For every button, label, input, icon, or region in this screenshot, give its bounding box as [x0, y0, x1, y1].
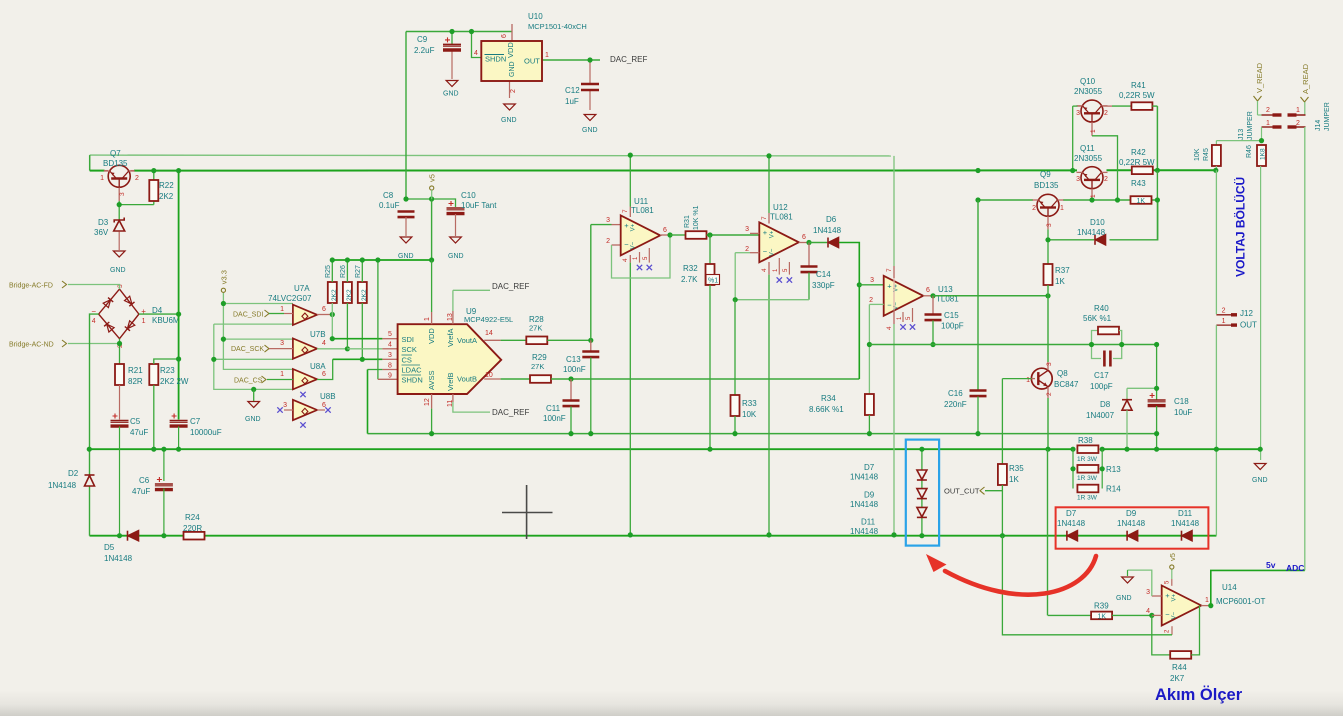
- capacitor C7 symbol: [170, 421, 188, 427]
- capacitor C16 plates: [970, 391, 987, 397]
- pin 8 LDAC: [382, 369, 397, 371]
- resistor R41: [1131, 102, 1152, 110]
- junction: [176, 168, 181, 173]
- pin 1 U13: [902, 312, 904, 322]
- junction: [867, 431, 872, 436]
- svg-text:J14: J14: [1315, 120, 1322, 131]
- junction: [587, 57, 592, 62]
- wire C8 feed vertical: [405, 32, 407, 200]
- svg-text:Q8: Q8: [1057, 369, 1068, 378]
- svg-text:AVSS: AVSS: [427, 371, 436, 390]
- diode D8 symbol: [1122, 400, 1132, 411]
- svg-text:GND: GND: [509, 61, 516, 77]
- svg-text:U14: U14: [1222, 583, 1237, 592]
- svg-text:V+: V+: [894, 284, 900, 292]
- no-connect U8B bottom: [300, 422, 305, 427]
- transistor Q11 symbol: [1081, 167, 1103, 189]
- svg-text:1K8: 1K8: [1260, 148, 1267, 160]
- svg-text:D10: D10: [1090, 218, 1105, 227]
- wire DAC_REF B: [453, 402, 490, 412]
- wire Q10 emitter leg: [1092, 136, 1118, 200]
- svg-text:GND: GND: [1252, 477, 1268, 484]
- resistor R43 body: [1131, 196, 1152, 204]
- svg-text:1: 1: [100, 175, 104, 182]
- svg-text:1: 1: [1296, 107, 1300, 114]
- svg-text:1: 1: [280, 306, 284, 313]
- wire LDAC down: [367, 370, 369, 434]
- svg-text:MCP1501-40xCH: MCP1501-40xCH: [528, 22, 587, 31]
- resistor R28: [526, 337, 547, 345]
- svg-text:C10: C10: [461, 191, 476, 200]
- svg-text:D11: D11: [1178, 509, 1193, 518]
- wire gnd to U7B: [214, 358, 293, 360]
- no-connect U11 pin5: [647, 265, 652, 270]
- wire shunt left loop: [1072, 449, 1074, 488]
- svg-text:6: 6: [802, 234, 806, 241]
- wire C9 top: [451, 32, 453, 45]
- pin 4 U13: [893, 310, 895, 324]
- wire R34 bottom: [868, 415, 870, 434]
- junction: [1115, 197, 1120, 202]
- wire v5 to C10: [406, 199, 456, 207]
- wire R33 top: [734, 300, 736, 395]
- wire C17 right: [1113, 345, 1122, 359]
- wire R41 column: [1156, 106, 1158, 171]
- wire R35 to OUT_CUT: [985, 485, 1002, 491]
- junction: [975, 197, 980, 202]
- pin 5 U14: [1171, 579, 1173, 586]
- wire gnd stem U14: [1127, 570, 1129, 576]
- svg-text:1: 1: [142, 318, 146, 325]
- wire R39 left: [1048, 614, 1091, 616]
- resistor R33 body: [731, 395, 740, 416]
- junction: [930, 293, 935, 298]
- svg-text:0,22R 5W: 0,22R 5W: [1119, 91, 1155, 100]
- svg-text:1N4148: 1N4148: [1171, 519, 1200, 528]
- svg-text:TL081: TL081: [770, 213, 793, 222]
- wire C6 top: [163, 449, 165, 481]
- wire U11 feedback: [612, 235, 671, 278]
- wire SHDN riser: [377, 260, 379, 379]
- resistor R46 body: [1257, 145, 1266, 166]
- highlight box blue: [906, 440, 939, 546]
- junction: [449, 29, 454, 34]
- svg-text:6: 6: [322, 306, 326, 313]
- svg-text:%1: %1: [708, 278, 718, 285]
- junction: [469, 29, 474, 34]
- pin 7 U13: [893, 266, 895, 278]
- svg-text:BD135: BD135: [103, 159, 128, 168]
- svg-text:D7: D7: [864, 463, 875, 472]
- wire D3 to ground: [118, 232, 120, 251]
- junction: [161, 533, 166, 538]
- resistor R21: [115, 364, 124, 385]
- svg-text:C13: C13: [566, 355, 581, 364]
- svg-text:1: 1: [280, 371, 284, 378]
- wire V_READ down: [1257, 101, 1259, 115]
- svg-text:U7A: U7A: [294, 284, 310, 293]
- wire SDI: [332, 338, 382, 340]
- wire R33 bottom: [734, 416, 736, 434]
- svg-text:R40: R40: [1094, 304, 1109, 313]
- resistor R32 body: [706, 264, 715, 285]
- svg-text:JUMPER: JUMPER: [1324, 102, 1331, 131]
- svg-text:2K7: 2K7: [1170, 674, 1185, 683]
- junction: [1070, 466, 1075, 471]
- diode D7p symbol: [1067, 531, 1078, 541]
- junction: [1100, 447, 1105, 452]
- pin 4 U12: [768, 262, 770, 275]
- svg-text:2: 2: [1104, 176, 1108, 183]
- wire U14 vss return: [1002, 536, 1172, 635]
- wire Q8 base: [1002, 378, 1031, 380]
- svg-text:1: 1: [1205, 597, 1209, 604]
- junction: [1154, 386, 1159, 391]
- junction: [1089, 197, 1094, 202]
- svg-text:100pF: 100pF: [941, 322, 964, 331]
- wire R45 top: [1215, 141, 1217, 145]
- wire J14 column down: [1304, 127, 1306, 570]
- wire A_READ down: [1304, 102, 1306, 115]
- diode D7 symbol: [917, 470, 927, 480]
- svg-text:2K2: 2K2: [159, 192, 174, 201]
- pin 5 U12: [788, 262, 790, 275]
- svg-text:0.1uF: 0.1uF: [379, 201, 400, 210]
- svg-text:C12: C12: [565, 86, 580, 95]
- junction: [857, 282, 862, 287]
- wire U11 V- leg: [629, 263, 631, 535]
- wire U14 out to ADC: [1211, 570, 1305, 605]
- svg-text:VrefA: VrefA: [446, 329, 455, 347]
- wire C6 bottom: [163, 489, 165, 536]
- wire to R31: [670, 234, 686, 236]
- junction: [891, 532, 896, 537]
- buffer U8A symbol: [293, 369, 317, 389]
- wire U12 feedback: [735, 299, 809, 301]
- pin U7A in: [284, 313, 293, 315]
- junction: [176, 447, 181, 452]
- junction: [345, 257, 350, 262]
- svg-text:V+: V+: [1172, 593, 1178, 601]
- svg-text:2: 2: [1266, 107, 1270, 114]
- svg-text:82R: 82R: [128, 377, 143, 386]
- pin 1 VDD U9: [431, 312, 433, 324]
- wire R31 out: [707, 234, 760, 236]
- pin 1 Q7: [105, 170, 109, 172]
- wire U13 V+ leg: [893, 156, 895, 266]
- svg-text:GND: GND: [448, 253, 464, 260]
- junction: [429, 257, 434, 262]
- svg-text:56K %1: 56K %1: [1083, 314, 1112, 323]
- svg-text:U12: U12: [773, 203, 788, 212]
- junction: [151, 447, 156, 452]
- svg-text:VOLTAJ BÖLÜCÜ: VOLTAJ BÖLÜCÜ: [1233, 177, 1248, 277]
- svg-text:DAC_REF: DAC_REF: [492, 408, 529, 417]
- ground C10: [450, 237, 462, 243]
- IC U10 MCP1501: [481, 41, 542, 81]
- wire Q9 emitter: [1047, 229, 1049, 264]
- svg-text:U11: U11: [634, 197, 649, 206]
- ground U14: [1122, 577, 1134, 583]
- svg-text:1: 1: [1060, 205, 1064, 212]
- no-connect U8B out: [325, 407, 330, 412]
- pin 1 U11: [639, 252, 641, 263]
- wire v5 link down: [431, 199, 433, 260]
- svg-text:12: 12: [424, 398, 431, 406]
- buffer U7B symbol: [293, 338, 317, 358]
- svg-text:1N4007: 1N4007: [1086, 411, 1115, 420]
- svg-text:100pF: 100pF: [1090, 382, 1113, 391]
- svg-text:R29: R29: [532, 353, 547, 362]
- svg-text:C8: C8: [383, 191, 394, 200]
- junction: [1155, 168, 1160, 173]
- wire U12 -in: [735, 252, 750, 254]
- resistor R26 body: [343, 282, 352, 303]
- wire Q10 base down: [1072, 106, 1074, 171]
- svg-text:1: 1: [545, 52, 549, 59]
- svg-text:8: 8: [388, 363, 392, 370]
- svg-text:1K: 1K: [1137, 198, 1146, 205]
- junction: [975, 168, 980, 173]
- svg-text:+: +: [763, 228, 768, 237]
- pin 3 U14: [1152, 595, 1162, 597]
- svg-text:9: 9: [388, 373, 392, 380]
- ground right: [1254, 464, 1266, 470]
- pin 5 SDI: [382, 338, 397, 340]
- junction: [211, 357, 216, 362]
- svg-text:3: 3: [119, 192, 126, 196]
- wire main positive rail b: [134, 169, 1077, 171]
- wire R34 top: [868, 345, 870, 395]
- svg-text:SHDN: SHDN: [485, 55, 506, 64]
- svg-text:−: −: [624, 240, 629, 249]
- wire CS: [333, 358, 383, 360]
- wire SCK: [347, 348, 382, 350]
- wire J13 pin1 down: [1261, 127, 1263, 141]
- wire C15 bottom: [932, 321, 934, 345]
- svg-text:C11: C11: [546, 404, 561, 413]
- junction: [975, 431, 980, 436]
- svg-text:OUT: OUT: [1240, 321, 1257, 330]
- svg-text:2: 2: [510, 89, 517, 93]
- svg-text:4: 4: [92, 318, 96, 325]
- wire C13 bottom: [590, 358, 592, 434]
- svg-text:4: 4: [322, 340, 326, 347]
- capacitor C11 plates: [563, 401, 580, 407]
- svg-text:1N4148: 1N4148: [1077, 228, 1106, 237]
- svg-text:VrefB: VrefB: [446, 373, 455, 391]
- ground U10: [504, 104, 516, 110]
- junction: [1213, 168, 1218, 173]
- ground C12: [584, 115, 596, 121]
- svg-text:220nF: 220nF: [944, 400, 967, 409]
- resistor R34 body: [865, 394, 874, 415]
- svg-text:47uF: 47uF: [132, 487, 150, 496]
- svg-text:6: 6: [663, 227, 667, 234]
- pin 2 Q7: [131, 170, 135, 172]
- svg-text:+: +: [887, 281, 892, 290]
- junction: [1154, 447, 1159, 452]
- svg-text:2.2uF: 2.2uF: [414, 46, 435, 55]
- no-connect U11 pin1: [637, 265, 642, 270]
- connector J13: [1262, 115, 1282, 127]
- wire sense feed column: [1047, 449, 1049, 615]
- pin base Q8: [1031, 378, 1035, 380]
- svg-text:JUMPER: JUMPER: [1247, 111, 1254, 140]
- svg-text:Q10: Q10: [1080, 77, 1096, 86]
- svg-text:3: 3: [870, 277, 874, 284]
- svg-text:SHDN: SHDN: [402, 376, 423, 385]
- svg-text:C7: C7: [190, 417, 201, 426]
- svg-text:2K2 2W: 2K2 2W: [160, 377, 189, 386]
- svg-text:4: 4: [622, 258, 629, 262]
- wire D8 top: [1126, 388, 1128, 399]
- svg-text:27K: 27K: [529, 324, 542, 333]
- pin 11 VrefB: [452, 394, 454, 402]
- svg-text:V−: V−: [769, 248, 775, 256]
- pin 14 VoutA: [484, 339, 500, 341]
- wire R44 left: [1152, 615, 1170, 655]
- wire Q8 emitter down: [1047, 398, 1049, 449]
- svg-text:U8A: U8A: [310, 362, 326, 371]
- wire DAC_SCK in: [269, 348, 293, 350]
- wire U12 V- leg: [768, 275, 770, 535]
- svg-text:C18: C18: [1174, 397, 1189, 406]
- wire bridge to R21: [119, 339, 121, 364]
- wire R45 bottom: [1215, 166, 1217, 170]
- wire bridge AC top: [68, 285, 120, 290]
- svg-text:3: 3: [1046, 223, 1053, 227]
- svg-text:−: −: [1165, 610, 1170, 619]
- svg-text:2K2: 2K2: [331, 289, 338, 301]
- svg-text:1R 3W: 1R 3W: [1077, 456, 1098, 463]
- svg-text:KBU6M: KBU6M: [152, 316, 180, 325]
- wire R40 right: [1119, 331, 1122, 345]
- junction: [117, 533, 122, 538]
- diode D6 symbol: [828, 238, 839, 248]
- svg-text:1N4148: 1N4148: [1117, 519, 1146, 528]
- svg-text:100nF: 100nF: [563, 365, 586, 374]
- capacitor C15 plates: [925, 315, 942, 321]
- svg-text:R31: R31: [684, 215, 691, 228]
- svg-text:10K: 10K: [742, 410, 757, 419]
- pin 12 AVSS: [431, 394, 433, 409]
- wire U13 out: [933, 295, 1048, 297]
- wire v5 stub: [1171, 570, 1173, 580]
- buffer U8B symbol: [293, 400, 317, 420]
- wire U12 fb drop: [734, 253, 736, 300]
- svg-text:47uF: 47uF: [130, 428, 148, 437]
- wire R37 bottom to Q8: [1047, 285, 1049, 362]
- wire to D6: [809, 242, 827, 244]
- svg-text:R41: R41: [1131, 81, 1146, 90]
- junction: [1100, 466, 1105, 471]
- svg-text:BD135: BD135: [1034, 181, 1059, 190]
- pin 1 U12: [778, 258, 780, 275]
- annotation red arrow: [945, 556, 1096, 595]
- resistor R40 body: [1098, 327, 1119, 335]
- capacitor C10 symbol: [447, 208, 465, 214]
- wire R39 right: [1112, 614, 1152, 616]
- junction: [375, 257, 380, 262]
- capacitor C9 symbol: [443, 44, 461, 50]
- wire AVSS down: [431, 409, 433, 434]
- wire C12 top: [589, 60, 591, 83]
- svg-text:GND: GND: [501, 117, 517, 124]
- svg-text:D6: D6: [826, 215, 837, 224]
- pin column U13 overlay: [893, 278, 895, 310]
- svg-text:2.7K: 2.7K: [681, 275, 698, 284]
- junction: [588, 431, 593, 436]
- svg-text:C5: C5: [130, 417, 141, 426]
- svg-text:D7: D7: [1066, 509, 1077, 518]
- chevron DAC_CS: [262, 376, 267, 383]
- no-connect U8B top: [300, 392, 305, 397]
- svg-text:10uF Tant: 10uF Tant: [461, 201, 497, 210]
- svg-text:C9: C9: [417, 35, 428, 44]
- highlight box red: [1056, 507, 1209, 548]
- wire R44 right: [1191, 606, 1199, 655]
- diode D5 symbol: [128, 531, 139, 541]
- resistor R22: [149, 180, 158, 201]
- svg-text:8.66K %1: 8.66K %1: [809, 405, 844, 414]
- svg-text:3: 3: [1076, 110, 1080, 117]
- junction: [1154, 342, 1159, 347]
- pin 9 SHDN: [378, 378, 398, 380]
- svg-text:Q11: Q11: [1080, 144, 1095, 153]
- junction: [1089, 342, 1094, 347]
- svg-text:Q7: Q7: [110, 149, 121, 158]
- pin U8B out: [317, 409, 325, 411]
- wire DAC_CS in: [267, 379, 293, 381]
- svg-text:Bridge-AC-FD: Bridge-AC-FD: [9, 283, 53, 290]
- wire R35 down: [1001, 491, 1003, 536]
- wire R25 top: [331, 260, 333, 282]
- pin 2 U14: [1171, 626, 1173, 635]
- ground D3: [113, 251, 125, 257]
- svg-text:1: 1: [1266, 120, 1270, 127]
- svg-text:R35: R35: [1009, 464, 1024, 473]
- wire J12 top column: [1215, 170, 1217, 314]
- wire R21 to C5: [119, 385, 121, 420]
- wire driver base rail a: [978, 199, 1033, 201]
- svg-text:DAC_REF: DAC_REF: [492, 282, 529, 291]
- wire C14 top: [808, 243, 810, 267]
- wire SHDN link: [472, 32, 482, 58]
- wire C12 bottom: [589, 91, 591, 110]
- chevron DAC_SDI: [265, 310, 270, 317]
- transistor Q7 symbol: [108, 165, 130, 187]
- wire bridge AC bottom: [68, 343, 120, 345]
- svg-text:VDD: VDD: [506, 42, 515, 58]
- wire C18 bottom: [1156, 406, 1158, 449]
- svg-text:D3: D3: [98, 218, 109, 227]
- bridge diode a: [103, 300, 110, 308]
- svg-text:U13: U13: [938, 285, 953, 294]
- op-amp U14 symbol: [1162, 586, 1202, 626]
- svg-text:1: 1: [1090, 129, 1097, 133]
- wire C7 bottom: [178, 427, 180, 450]
- junction: [1149, 613, 1154, 618]
- no-connect U13 pin1: [900, 324, 905, 329]
- wire v3.3 to U7B: [223, 338, 293, 340]
- resistor R24: [184, 532, 205, 540]
- pin 6 U11: [660, 234, 670, 236]
- junction: [117, 341, 122, 346]
- svg-text:D9: D9: [1126, 509, 1137, 518]
- svg-text:GND: GND: [443, 91, 459, 98]
- connector J14: [1288, 115, 1306, 127]
